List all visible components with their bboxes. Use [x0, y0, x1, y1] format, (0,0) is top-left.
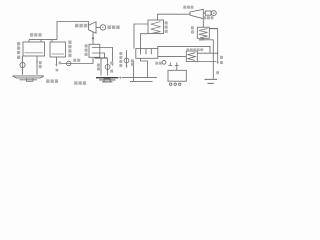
label drain2 vertical: [39, 61, 42, 64]
steam turbine left: [89, 22, 97, 33]
arrow vb: [217, 62, 219, 65]
right turbine: [190, 9, 203, 18]
preheater box: [186, 51, 197, 62]
arrow drain box2: [55, 64, 57, 67]
wire cooling mid: [92, 53, 105, 58]
label 发电机 left: [108, 25, 111, 29]
wire tower drain 1: [133, 61, 135, 82]
arrow channel: [119, 77, 122, 79]
wire steam header: [29, 39, 57, 41]
shaft right: [203, 12, 205, 14]
wire to well: [212, 40, 214, 79]
preheater coil: [188, 53, 195, 61]
generator left circle: [100, 25, 105, 30]
flash vessel box 2: [50, 42, 66, 57]
label 扩容器: [30, 33, 33, 36]
label right of box2 vertical: [68, 41, 71, 44]
label evaporator vertical: [165, 21, 168, 24]
arrow on drain 2: [36, 62, 38, 65]
label right generator: [203, 16, 206, 19]
fin 1: [140, 49, 142, 55]
label right of vb 1: [220, 56, 223, 59]
label mid pump vertical: [119, 52, 122, 55]
well bar 1: [205, 78, 218, 80]
wire condensate drain 1: [100, 58, 102, 76]
water level line box1: [25, 52, 44, 54]
fin 3: [150, 49, 152, 55]
wire drain box2: [56, 57, 58, 65]
text labels as blobs: [17, 6, 223, 85]
label right of mid pump: [131, 59, 134, 62]
label right of pump2: [110, 62, 113, 65]
wire condenser bottom drain: [199, 38, 203, 40]
evaporator box: [148, 20, 164, 34]
wire drain left with pump: [22, 56, 24, 75]
wire water pipe mid: [158, 55, 186, 57]
circle a: [170, 83, 172, 85]
wire nozzle 1: [28, 40, 30, 42]
cooling tower box: [136, 49, 158, 59]
wire vb down: [217, 29, 219, 63]
label 回灌井 left pond: [46, 79, 49, 83]
wire condenser top out: [209, 28, 217, 30]
pump mid: [124, 58, 129, 63]
wire nozzle 3: [51, 40, 53, 42]
label 回灌井 center pond: [74, 81, 77, 85]
bottom right box: [168, 70, 186, 81]
label right of well: [216, 71, 219, 74]
wire right turbine exhaust: [202, 19, 204, 28]
label right of vb 2: [220, 61, 223, 64]
arrow exhaust: [92, 38, 95, 41]
wire cooling out top: [92, 48, 113, 65]
label text row preheater: [186, 48, 189, 51]
wire drain 2: [36, 56, 38, 75]
tee symbol 1: [168, 63, 172, 66]
shaft: [96, 27, 100, 29]
label between drains vertical: [97, 64, 100, 67]
wire water pipe lower: [197, 61, 216, 63]
wire vapor pipe to right turbine: [158, 14, 191, 20]
arrow pump mid: [125, 66, 127, 69]
tee symbol 2: [175, 63, 179, 66]
manifold bottom: [95, 57, 108, 59]
label right condenser vertical: [191, 26, 194, 29]
label near drain3: [59, 62, 62, 65]
wire turbine exhaust: [92, 32, 94, 44]
pump P1: [20, 62, 25, 67]
water level line box2: [52, 53, 65, 55]
wire channel lower: [130, 80, 153, 82]
wire steam riser: [57, 22, 89, 40]
wire into bottom box: [176, 66, 178, 71]
right condenser coil: [199, 29, 208, 38]
right condenser box: [197, 27, 209, 38]
pump cooling supply: [67, 61, 71, 65]
flash vessel box 1: [23, 42, 45, 56]
wire hot water pipe upper: [158, 46, 210, 53]
fin 2: [145, 49, 147, 55]
label right turbine: [183, 6, 186, 9]
evaporator coil: [151, 22, 161, 34]
wire tower drain 2: [141, 58, 148, 77]
label condenser vertical: [85, 44, 88, 47]
wire channel upper: [122, 77, 158, 79]
condenser box: [89, 44, 100, 57]
generator right: [211, 11, 216, 16]
label cooling pump: [73, 59, 76, 62]
wire condensate drain 2 with pump: [107, 58, 109, 76]
wire pump riser mid: [126, 50, 128, 66]
label 汽轮机 left: [75, 24, 78, 28]
wire nozzle 2: [40, 40, 42, 42]
reinjection pond left: [13, 76, 45, 81]
wire cooling supply: [60, 58, 94, 64]
pump group small circle: [162, 60, 166, 64]
circle c: [179, 83, 181, 85]
label left vertical: [17, 42, 20, 45]
gearbox: [205, 11, 211, 15]
circle b: [174, 83, 176, 85]
label pump group: [155, 62, 158, 65]
pump condensate: [105, 65, 110, 70]
wire evap feed bottom: [141, 34, 149, 49]
well bar 2: [208, 82, 214, 84]
reinjection pond center: [96, 78, 118, 82]
arrow cooling out: [111, 64, 113, 67]
wire water pipe right: [197, 52, 218, 54]
wire evap feed top: [134, 24, 148, 49]
